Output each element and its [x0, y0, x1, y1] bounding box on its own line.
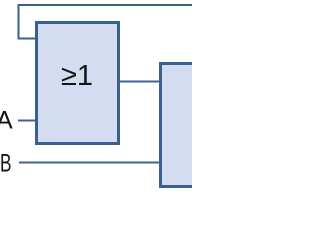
svg-text:B: B [0, 150, 12, 178]
svg-text:A: A [0, 107, 13, 135]
wire feedback from U2 output (off-canvas right) to U1 upper input [19, 5, 194, 39]
svg-text:≥1: ≥1 [61, 60, 93, 92]
or-gate U2 body (clipped at right edge) [161, 64, 221, 187]
wire input B to U2 lower input [19, 162, 162, 164]
wire input A to U1 [18, 120, 38, 122]
or-gate U1 body [37, 23, 119, 144]
wire U1 output to U2 upper input [119, 81, 162, 83]
